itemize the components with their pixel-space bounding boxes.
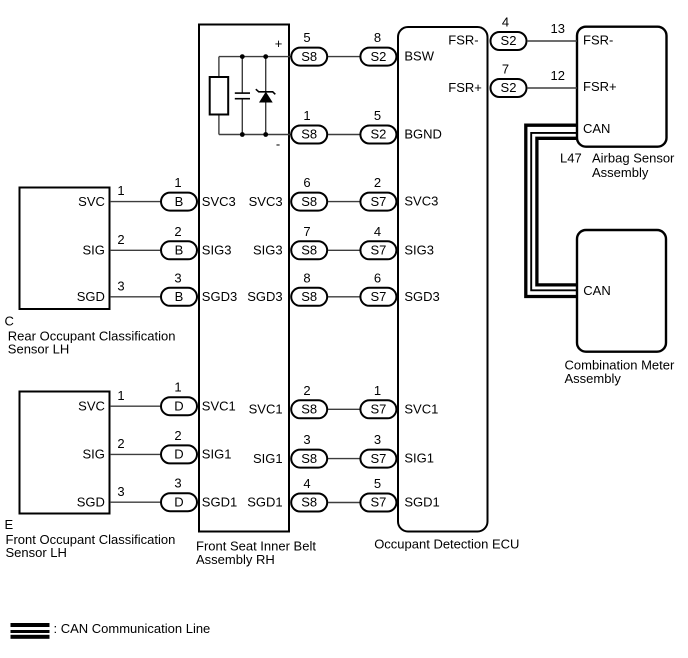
svg-text:S7: S7	[370, 194, 386, 209]
svg-text:12: 12	[551, 68, 565, 83]
svg-text:S7: S7	[370, 243, 386, 258]
svg-text:2: 2	[174, 224, 181, 239]
svg-text:1: 1	[374, 383, 381, 398]
connector S8 pin8	[291, 288, 327, 306]
CAN bus line outer	[526, 125, 577, 296]
wire E SGD to D	[110, 501, 160, 503]
connector S2 pin4	[491, 32, 527, 50]
junction dot bottom capacitor	[240, 132, 245, 137]
box L47 Airbag Sensor Assembly	[577, 27, 667, 147]
connector S8 pin4	[291, 494, 327, 512]
svg-text:SVC: SVC	[78, 194, 105, 209]
svg-text:5: 5	[374, 108, 381, 123]
svg-text:CAN: CAN	[583, 283, 610, 298]
svg-text:Occupant Detection ECU: Occupant Detection ECU	[374, 537, 519, 552]
svg-text:S8: S8	[301, 243, 317, 258]
svg-text:SGD1: SGD1	[404, 495, 439, 510]
connector B pin1	[161, 193, 197, 211]
svg-text:SVC3: SVC3	[202, 194, 236, 209]
connector S2 pin8	[360, 48, 396, 66]
svg-text:SGD: SGD	[77, 494, 105, 509]
svg-text:3: 3	[303, 432, 310, 447]
svg-text:SIG3: SIG3	[404, 242, 434, 257]
svg-text:FSR-: FSR-	[583, 33, 613, 48]
resistor R1	[210, 77, 229, 115]
wire resistor top stub	[218, 57, 220, 77]
connector S8 pin5	[291, 48, 327, 66]
svg-text:FSR+: FSR+	[448, 80, 482, 95]
svg-text:BGND: BGND	[404, 127, 442, 142]
svg-text:SGD: SGD	[77, 289, 105, 304]
svg-text:C: C	[5, 313, 14, 328]
box Occupant Detection ECU	[398, 27, 488, 532]
wire C SGD to B	[110, 296, 160, 298]
svg-text:2: 2	[174, 428, 181, 443]
svg-text:S2: S2	[501, 33, 517, 48]
svg-text:2: 2	[117, 436, 124, 451]
svg-text:+: +	[275, 36, 283, 51]
wire E SVC to D	[110, 405, 160, 407]
svg-text:2: 2	[374, 175, 381, 190]
capacitor C1 plate top	[235, 92, 250, 94]
svg-text:3: 3	[117, 278, 124, 293]
wire - rail	[219, 134, 292, 136]
svg-text:SIG3: SIG3	[202, 243, 232, 258]
svg-text:8: 8	[303, 270, 310, 285]
svg-text:FSR-: FSR-	[448, 33, 478, 48]
zener diode D1 cathode bar	[256, 89, 275, 94]
svg-text:SVC3: SVC3	[249, 194, 283, 209]
svg-text:1: 1	[303, 108, 310, 123]
wire BSW S8-S2	[328, 56, 360, 58]
connector B pin3	[161, 288, 197, 306]
wire SIG3 S8-S7	[328, 249, 360, 251]
wire capacitor top stub	[241, 57, 243, 93]
connector S8 pin3	[291, 450, 327, 468]
svg-text:-: -	[276, 136, 280, 151]
svg-text:4: 4	[502, 15, 509, 30]
svg-text:SGD1: SGD1	[247, 495, 282, 510]
connector S8 pin2	[291, 400, 327, 418]
box C Rear Occupant Classification Sensor LH	[20, 188, 110, 310]
svg-text:L47: L47	[560, 151, 582, 166]
junction dot top capacitor	[240, 54, 245, 59]
svg-text:4: 4	[303, 476, 310, 491]
wire resistor bottom stub	[218, 115, 220, 135]
svg-text:: CAN Communication Line: : CAN Communication Line	[54, 621, 211, 636]
connector S7 pin2	[360, 193, 396, 211]
svg-text:SIG1: SIG1	[202, 447, 232, 462]
svg-text:BSW: BSW	[404, 49, 434, 64]
svg-text:SGD3: SGD3	[202, 289, 237, 304]
svg-text:1: 1	[174, 175, 181, 190]
capacitor C1 plate bottom	[235, 98, 250, 100]
wire zener top stub	[265, 57, 267, 92]
wire C SIG to B	[110, 249, 160, 251]
svg-text:S7: S7	[370, 402, 386, 417]
svg-text:3: 3	[374, 432, 381, 447]
connector S8 pin1	[291, 126, 327, 144]
wire E SIG to D	[110, 453, 160, 455]
svg-text:FSR+: FSR+	[583, 79, 617, 94]
svg-text:S2: S2	[501, 80, 517, 95]
wire SIG1 S8-S7	[328, 458, 360, 460]
svg-text:6: 6	[303, 175, 310, 190]
svg-text:S7: S7	[370, 289, 386, 304]
svg-text:SVC: SVC	[78, 398, 105, 413]
connector S7 pin1	[360, 400, 396, 418]
svg-text:2: 2	[117, 232, 124, 247]
svg-text:8: 8	[374, 30, 381, 45]
connector S8 pin7	[291, 241, 327, 259]
box Front Seat Inner Belt Assembly RH	[199, 25, 289, 532]
svg-text:Assembly RH: Assembly RH	[196, 552, 275, 567]
svg-text:D: D	[174, 494, 183, 509]
wire zener bottom stub	[265, 102, 267, 135]
svg-text:SVC1: SVC1	[404, 401, 438, 416]
junction dot bottom zener	[263, 132, 268, 137]
connector D pin2	[161, 445, 197, 463]
svg-text:E: E	[5, 517, 14, 532]
junction dot top zener	[263, 54, 268, 59]
wire FSR+ to airbag	[527, 87, 577, 89]
svg-text:B: B	[175, 194, 184, 209]
svg-text:SGD3: SGD3	[404, 289, 439, 304]
svg-text:SIG1: SIG1	[253, 451, 283, 466]
svg-text:2: 2	[303, 383, 310, 398]
svg-text:S7: S7	[370, 495, 386, 510]
svg-text:S2: S2	[370, 49, 386, 64]
wire SGD3 S8-S7	[328, 296, 360, 298]
connector D pin3	[161, 493, 197, 511]
svg-text:7: 7	[303, 224, 310, 239]
svg-text:5: 5	[303, 30, 310, 45]
svg-text:Sensor LH: Sensor LH	[8, 342, 69, 357]
connector D pin1	[161, 397, 197, 415]
svg-text:3: 3	[174, 270, 181, 285]
svg-text:S8: S8	[301, 127, 317, 142]
svg-text:5: 5	[374, 476, 381, 491]
connector S7 pin3	[360, 450, 396, 468]
svg-text:1: 1	[117, 183, 124, 198]
svg-text:SVC1: SVC1	[249, 402, 283, 417]
wire SVC3 S8-S7	[328, 201, 360, 203]
wire C SVC to B	[110, 201, 160, 203]
connector S2 pin7	[491, 79, 527, 97]
svg-text:S8: S8	[301, 451, 317, 466]
connector S7 pin5	[360, 494, 396, 512]
wire FSR- to airbag	[527, 40, 577, 42]
svg-text:Assembly: Assembly	[592, 165, 649, 180]
wire SGD1 S8-S7	[328, 502, 360, 504]
svg-text:SIG: SIG	[82, 243, 104, 258]
svg-text:4: 4	[374, 224, 381, 239]
svg-text:SIG: SIG	[82, 447, 104, 462]
svg-text:S8: S8	[301, 49, 317, 64]
legend CAN bar bottom	[11, 635, 50, 639]
box Combination Meter Assembly	[577, 230, 666, 352]
svg-text:S7: S7	[370, 451, 386, 466]
connector S7 pin4	[360, 241, 396, 259]
svg-text:3: 3	[174, 476, 181, 491]
svg-text:1: 1	[117, 388, 124, 403]
svg-text:3: 3	[117, 484, 124, 499]
legend CAN bar middle	[11, 630, 50, 633]
svg-text:Assembly: Assembly	[565, 371, 622, 386]
svg-text:6: 6	[374, 270, 381, 285]
svg-text:SGD3: SGD3	[247, 289, 282, 304]
wire capacitor bottom stub	[241, 99, 243, 135]
svg-text:SGD1: SGD1	[202, 494, 237, 509]
svg-text:7: 7	[502, 62, 509, 77]
svg-text:S2: S2	[370, 127, 386, 142]
CAN bus line inner	[537, 138, 577, 285]
connector S2 pin5	[360, 126, 396, 144]
svg-text:S8: S8	[301, 402, 317, 417]
CAN bus line middle	[531, 133, 577, 290]
connector S8 pin6	[291, 193, 327, 211]
svg-text:1: 1	[174, 380, 181, 395]
svg-text:SIG1: SIG1	[404, 451, 434, 466]
svg-text:Airbag Sensor: Airbag Sensor	[592, 151, 675, 166]
svg-text:S8: S8	[301, 289, 317, 304]
svg-text:B: B	[175, 243, 184, 258]
svg-text:SIG3: SIG3	[253, 243, 283, 258]
svg-text:Sensor LH: Sensor LH	[6, 545, 67, 560]
wire BGND S8-S2	[328, 134, 360, 136]
svg-text:S8: S8	[301, 495, 317, 510]
wire + rail	[219, 56, 292, 58]
legend CAN bar top	[11, 623, 50, 627]
svg-text:S8: S8	[301, 194, 317, 209]
connector B pin2	[161, 241, 197, 259]
svg-text:13: 13	[551, 21, 565, 36]
wire SVC1 S8-S7	[328, 408, 360, 410]
zener diode D1 anode triangle	[260, 93, 272, 102]
box E Front Occupant Classification Sensor LH	[20, 392, 110, 514]
svg-text:D: D	[174, 447, 183, 462]
svg-text:SVC3: SVC3	[404, 194, 438, 209]
connector S7 pin6	[360, 288, 396, 306]
svg-text:SVC1: SVC1	[202, 398, 236, 413]
svg-text:CAN: CAN	[583, 121, 610, 136]
svg-text:D: D	[174, 398, 183, 413]
svg-text:B: B	[175, 289, 184, 304]
